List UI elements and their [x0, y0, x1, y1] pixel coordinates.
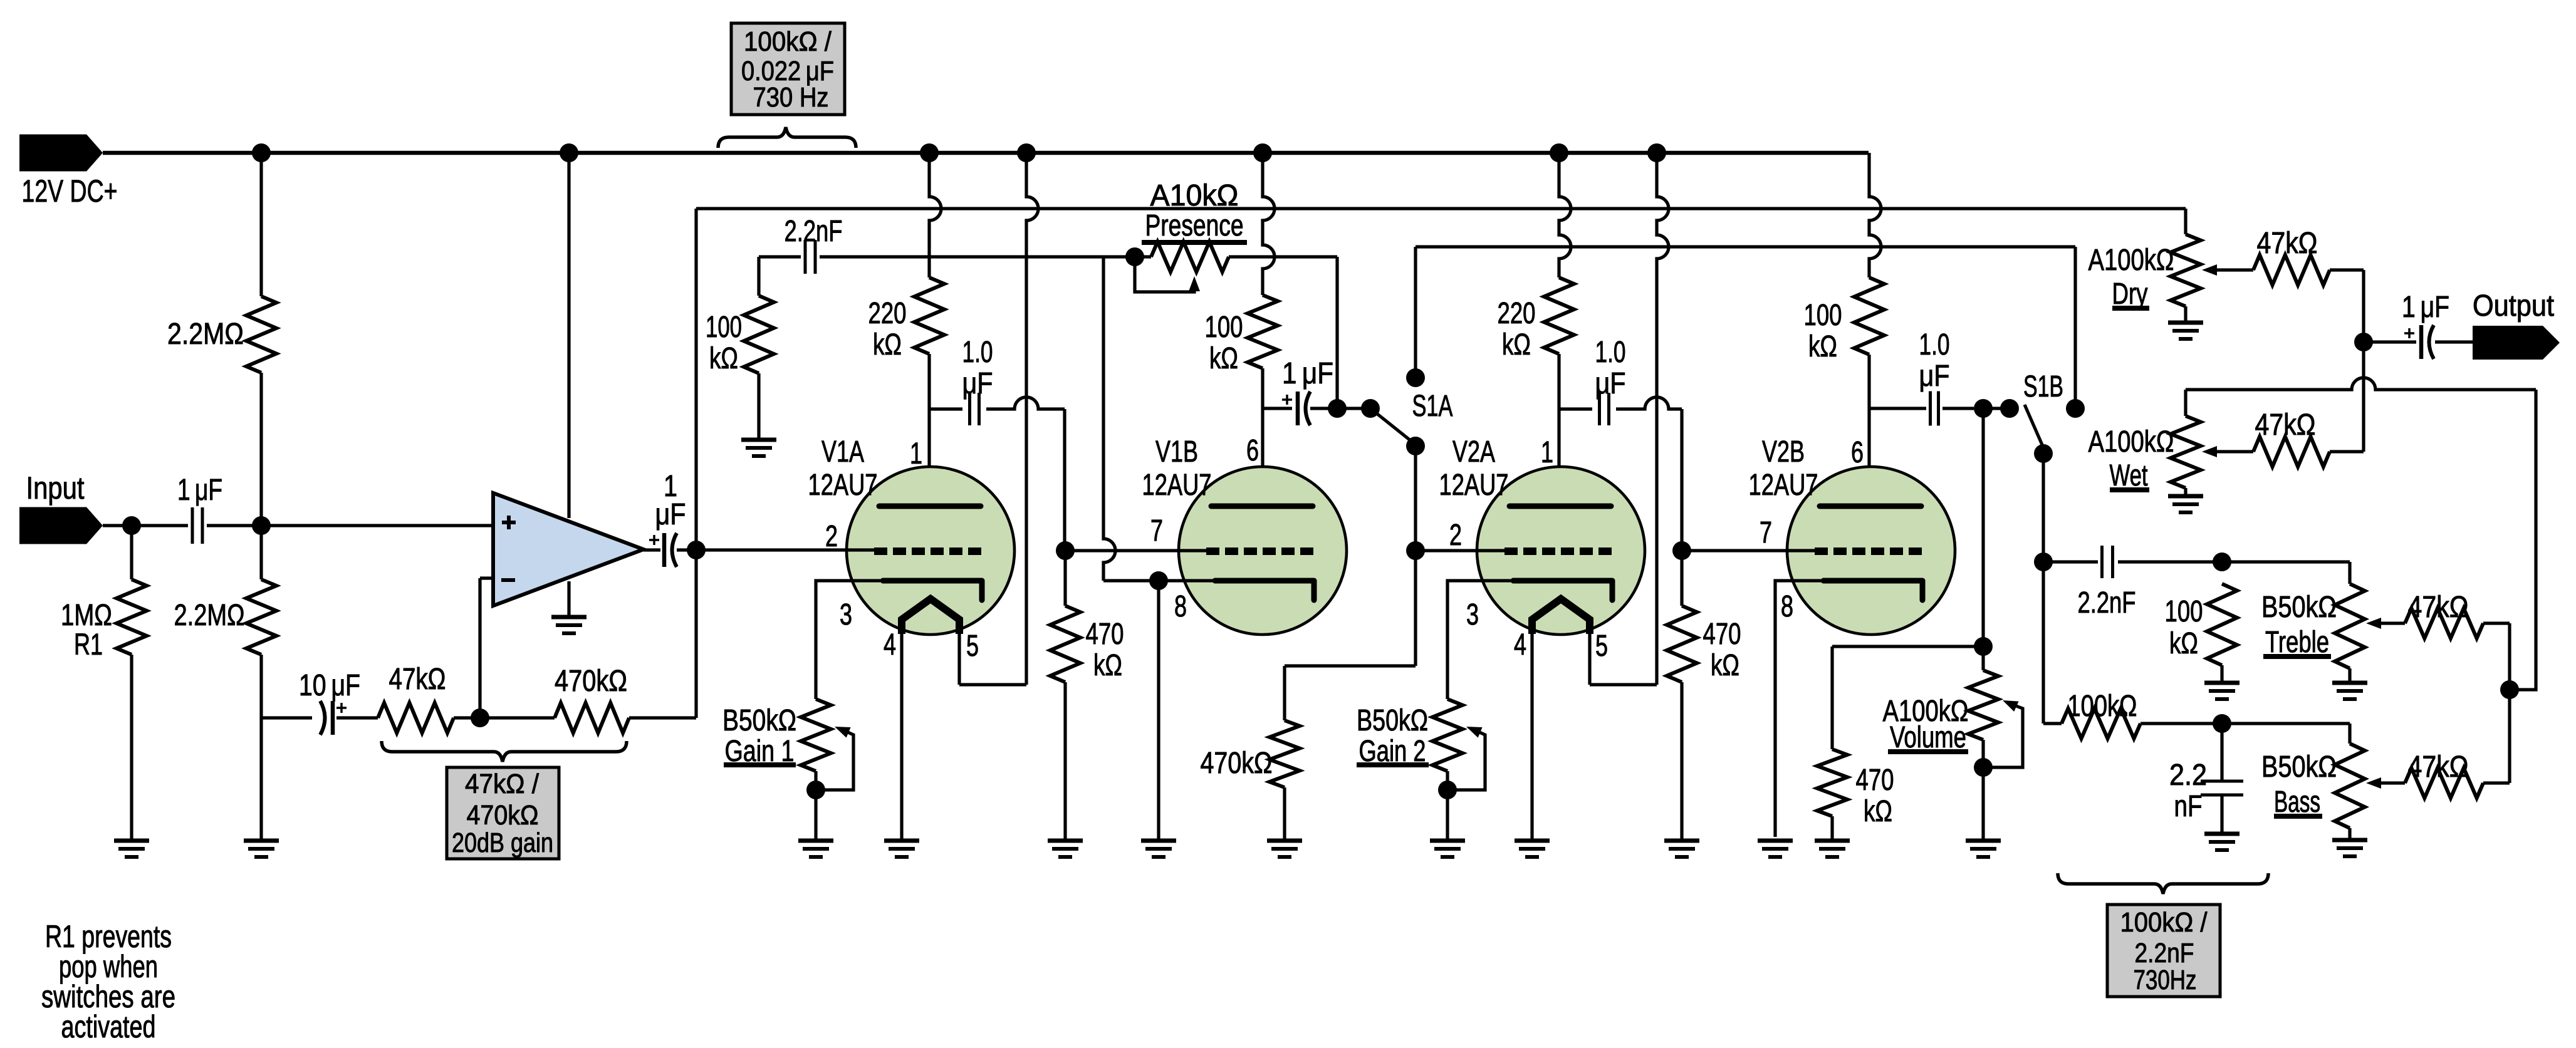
svg-text:1 μF: 1 μF — [1282, 357, 1333, 390]
svg-text:A100kΩ: A100kΩ — [2088, 425, 2174, 459]
svg-text:20dB gain: 20dB gain — [452, 828, 553, 858]
svg-text:47kΩ: 47kΩ — [2257, 227, 2318, 260]
svg-text:3: 3 — [840, 598, 852, 631]
svg-text:220: 220 — [868, 297, 907, 330]
svg-text:Output: Output — [2473, 289, 2554, 323]
svg-text:47kΩ: 47kΩ — [2408, 750, 2469, 784]
svg-text:μF: μF — [655, 498, 686, 531]
svg-text:V2B: V2B — [1762, 435, 1805, 469]
svg-text:kΩ: kΩ — [1864, 795, 1892, 828]
svg-text:100: 100 — [706, 311, 742, 344]
svg-text:activated: activated — [61, 1009, 156, 1044]
svg-text:1.0: 1.0 — [1919, 328, 1950, 361]
svg-text:470kΩ: 470kΩ — [555, 665, 627, 698]
svg-text:kΩ: kΩ — [709, 342, 738, 375]
svg-text:Presence: Presence — [1145, 209, 1244, 242]
svg-text:2.2MΩ: 2.2MΩ — [174, 599, 245, 632]
svg-text:V2A: V2A — [1452, 435, 1495, 469]
svg-text:3: 3 — [1466, 598, 1479, 631]
svg-text:B50kΩ: B50kΩ — [2261, 591, 2337, 624]
svg-text:730 Hz: 730 Hz — [753, 82, 829, 113]
svg-text:B50kΩ: B50kΩ — [722, 704, 796, 737]
svg-text:470: 470 — [1856, 764, 1894, 797]
svg-text:12AU7: 12AU7 — [1142, 469, 1212, 502]
svg-text:10 μF: 10 μF — [299, 669, 360, 702]
svg-text:2.2nF: 2.2nF — [2078, 586, 2136, 620]
svg-text:100: 100 — [1804, 299, 1842, 332]
svg-text:Input: Input — [26, 470, 85, 506]
svg-text:220: 220 — [1498, 297, 1536, 330]
svg-text:2: 2 — [825, 520, 838, 553]
svg-text:12AU7: 12AU7 — [808, 469, 878, 502]
svg-text:B50kΩ: B50kΩ — [1357, 704, 1428, 737]
svg-text:7: 7 — [1150, 514, 1163, 547]
svg-text:100kΩ: 100kΩ — [2068, 690, 2137, 723]
svg-text:B50kΩ: B50kΩ — [2261, 750, 2337, 784]
svg-text:μF: μF — [1919, 360, 1950, 393]
svg-text:S1A: S1A — [1412, 390, 1453, 423]
svg-text:12AU7: 12AU7 — [1749, 469, 1818, 502]
svg-text:kΩ: kΩ — [1502, 328, 1531, 361]
svg-text:47kΩ: 47kΩ — [2255, 408, 2316, 442]
svg-text:kΩ: kΩ — [1808, 330, 1837, 363]
svg-text:47kΩ /: 47kΩ / — [465, 769, 540, 799]
svg-text:A10kΩ: A10kΩ — [1150, 179, 1239, 212]
svg-text:47kΩ: 47kΩ — [2408, 591, 2469, 624]
svg-text:kΩ: kΩ — [873, 328, 902, 361]
svg-text:V1B: V1B — [1155, 435, 1198, 469]
svg-text:470kΩ: 470kΩ — [1201, 747, 1273, 780]
svg-text:100kΩ /: 100kΩ / — [744, 26, 832, 57]
svg-text:kΩ: kΩ — [1711, 649, 1739, 682]
svg-text:8: 8 — [1174, 590, 1187, 623]
svg-text:R1: R1 — [74, 628, 103, 661]
svg-text:1 μF: 1 μF — [177, 474, 222, 507]
svg-text:2.2MΩ: 2.2MΩ — [167, 318, 244, 351]
svg-text:6: 6 — [1851, 436, 1864, 469]
svg-text:nF: nF — [2174, 790, 2203, 823]
svg-text:S1B: S1B — [2023, 370, 2063, 403]
svg-text:1: 1 — [1541, 436, 1553, 469]
svg-text:4: 4 — [884, 628, 896, 661]
svg-text:8: 8 — [1781, 590, 1793, 623]
svg-text:7: 7 — [1760, 516, 1772, 549]
svg-text:1.0: 1.0 — [1595, 336, 1626, 369]
svg-text:5: 5 — [1595, 630, 1608, 663]
svg-text:12AU7: 12AU7 — [1439, 469, 1509, 502]
svg-text:2.2nF: 2.2nF — [2135, 938, 2194, 968]
svg-text:μF: μF — [1595, 367, 1626, 400]
svg-text:1: 1 — [910, 437, 922, 470]
svg-text:730Hz: 730Hz — [2134, 965, 2197, 995]
svg-text:2.2nF: 2.2nF — [785, 215, 843, 248]
svg-text:kΩ: kΩ — [1093, 649, 1122, 682]
svg-text:1MΩ: 1MΩ — [61, 599, 112, 632]
svg-text:V1A: V1A — [821, 435, 864, 469]
svg-text:6: 6 — [1246, 434, 1259, 467]
svg-text:1.0: 1.0 — [962, 336, 993, 369]
svg-text:2.2: 2.2 — [2169, 759, 2207, 792]
svg-text:470kΩ: 470kΩ — [467, 800, 539, 831]
svg-text:470: 470 — [1703, 618, 1741, 651]
svg-text:kΩ: kΩ — [1209, 342, 1238, 375]
svg-text:μF: μF — [962, 367, 993, 400]
svg-text:1 μF: 1 μF — [2402, 291, 2449, 324]
svg-text:100kΩ /: 100kΩ / — [2120, 907, 2208, 938]
svg-text:2: 2 — [1449, 519, 1462, 552]
svg-text:5: 5 — [966, 630, 979, 663]
svg-text:kΩ: kΩ — [2169, 627, 2198, 660]
svg-text:12V DC+: 12V DC+ — [22, 174, 118, 209]
svg-text:A100kΩ: A100kΩ — [2088, 244, 2174, 277]
svg-text:100: 100 — [2165, 595, 2203, 628]
svg-text:4: 4 — [1514, 628, 1526, 661]
svg-text:100: 100 — [1205, 311, 1243, 344]
svg-text:47kΩ: 47kΩ — [389, 663, 446, 696]
svg-text:470: 470 — [1086, 618, 1124, 651]
